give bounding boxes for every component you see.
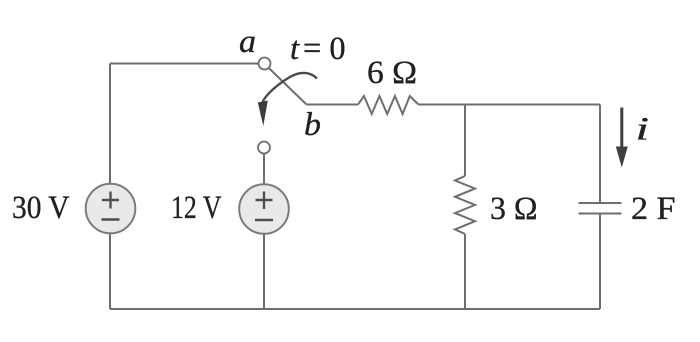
voltage source V1 30V circle bbox=[86, 184, 136, 234]
V2 minus sign bbox=[255, 219, 273, 221]
wire switch blade a to b bbox=[269, 68, 307, 105]
wire 3-ohm branch top bbox=[464, 105, 466, 177]
svg-text:t: t bbox=[290, 31, 300, 67]
wire left side bbox=[109, 64, 111, 185]
resistor R 3-ohm zigzag bbox=[455, 176, 475, 234]
wire left below 30V source bbox=[109, 234, 111, 310]
voltage source V2 12V circle bbox=[239, 184, 289, 234]
svg-text:3 Ω: 3 Ω bbox=[490, 191, 538, 227]
wire 3-ohm branch bottom bbox=[464, 234, 466, 309]
wire 12V branch below source bbox=[263, 234, 265, 309]
switch motion arrowhead bbox=[258, 101, 268, 127]
V2 plus sign bbox=[256, 192, 273, 210]
svg-text:30 V: 30 V bbox=[12, 190, 70, 226]
switch lower terminal circle above 12V source bbox=[258, 142, 270, 154]
wire bottom bbox=[110, 308, 600, 310]
svg-text:6 Ω: 6 Ω bbox=[367, 55, 417, 91]
wire from b to 6-ohm resistor bbox=[307, 104, 359, 106]
svg-text:2 F: 2 F bbox=[631, 191, 676, 227]
switch motion arc t=0 bbox=[263, 73, 318, 102]
current arrow i shaft bbox=[620, 108, 623, 149]
wire from 6-ohm resistor to top-right corner bbox=[419, 104, 601, 106]
V1 plus sign bbox=[102, 192, 119, 209]
current arrow i head bbox=[616, 147, 628, 168]
svg-text:= 0: = 0 bbox=[303, 31, 346, 67]
svg-text:i: i bbox=[636, 112, 650, 148]
V1 minus sign bbox=[102, 218, 120, 220]
wire 12V branch stub between terminal circle and source bbox=[263, 154, 265, 185]
wire top-left from corner to switch node a bbox=[110, 63, 258, 65]
resistor R 6-ohm zigzag bbox=[358, 96, 419, 114]
wire right side above capacitor bbox=[599, 105, 601, 204]
svg-text:12 V: 12 V bbox=[171, 190, 222, 226]
capacitor C 2F plates bbox=[579, 203, 622, 214]
wire right side below capacitor bbox=[599, 214, 601, 310]
svg-text:b: b bbox=[304, 107, 321, 143]
svg-text:a: a bbox=[239, 24, 256, 60]
node a terminal circle bbox=[259, 58, 271, 70]
